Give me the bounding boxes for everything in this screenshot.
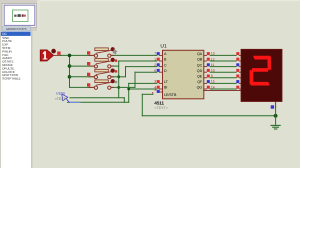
svg-text:4511: 4511 <box>154 100 164 105</box>
svg-text:5: 5 <box>154 88 156 92</box>
svg-text:U1: U1 <box>160 44 167 50</box>
svg-text:QC: QC <box>197 63 203 67</box>
svg-text:QA: QA <box>197 52 203 56</box>
svg-text:BI: BI <box>164 86 167 90</box>
svg-text:QG: QG <box>197 86 203 90</box>
svg-text:<TEXT>: <TEXT> <box>55 97 68 101</box>
svg-text:2: 2 <box>154 63 156 67</box>
svg-text:3: 3 <box>154 80 156 84</box>
svg-text:1: 1 <box>154 57 156 61</box>
svg-text:SCRIPTABLE: SCRIPTABLE <box>2 77 20 81</box>
svg-text:7: 7 <box>154 52 156 56</box>
svg-text:QB: QB <box>197 58 203 62</box>
svg-text:LE/STB: LE/STB <box>164 93 177 97</box>
svg-text:GENERATORS: GENERATORS <box>6 27 27 31</box>
svg-text:C: C <box>164 63 167 67</box>
svg-text:QE: QE <box>197 75 203 79</box>
svg-text:<TEXT>: <TEXT> <box>155 106 168 110</box>
svg-text:QF: QF <box>197 80 203 84</box>
svg-text:D: D <box>164 69 167 73</box>
svg-text:U1(B): U1(B) <box>56 91 65 95</box>
svg-text:6: 6 <box>154 69 156 73</box>
svg-text:QD: QD <box>197 69 203 73</box>
